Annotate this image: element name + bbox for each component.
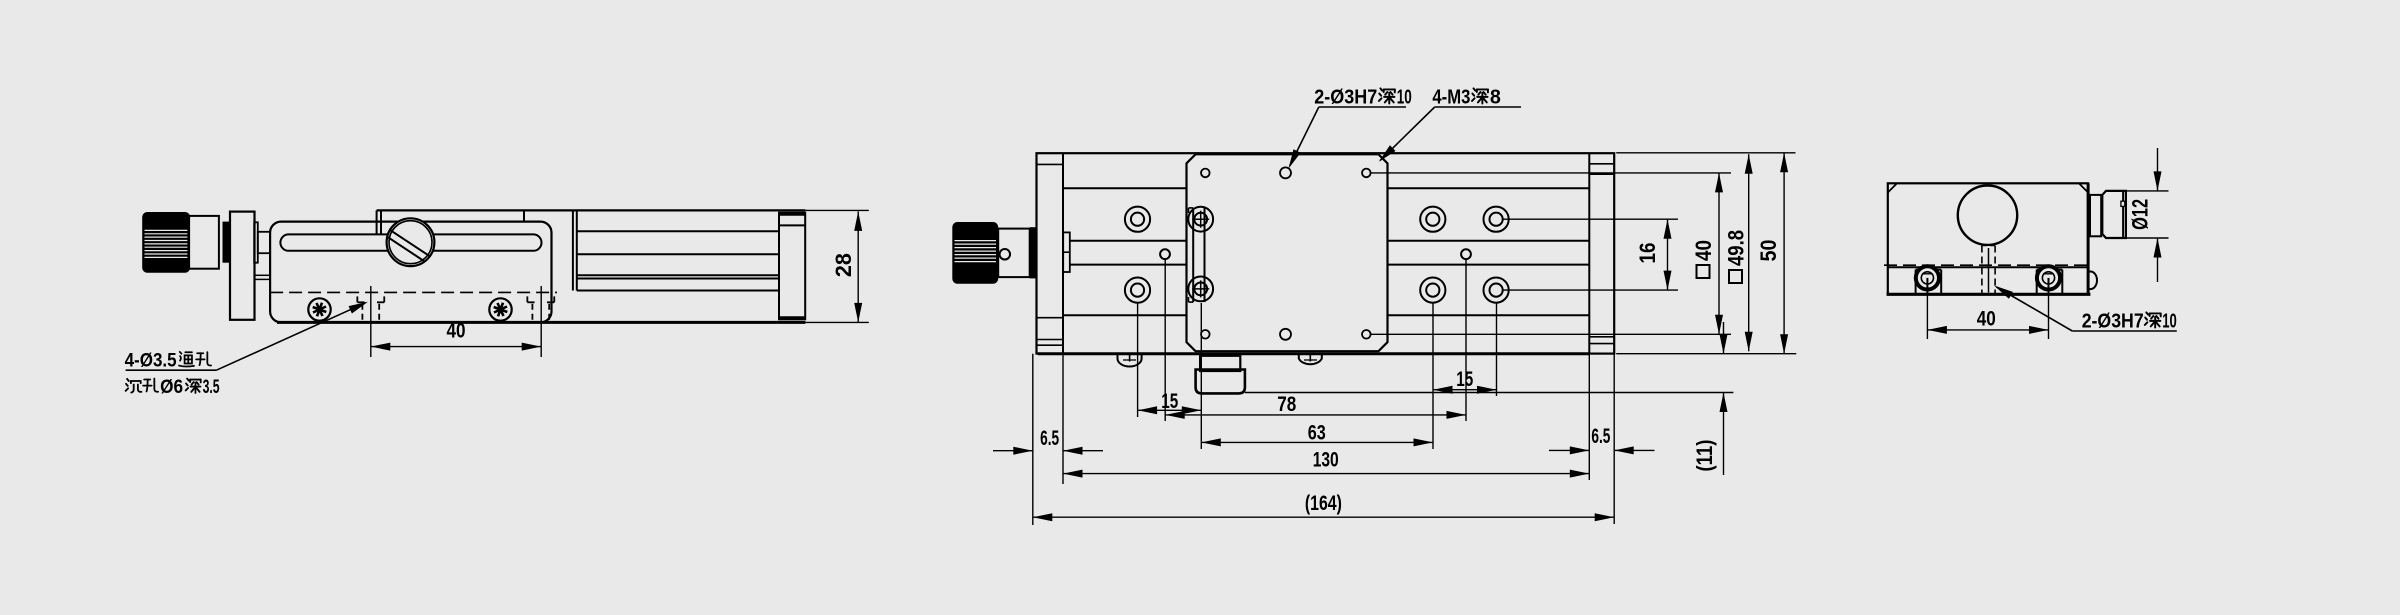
svg-text:16: 16 (1635, 243, 1660, 264)
left dowel hole (1160, 249, 1170, 259)
table cutout edge (523, 210, 525, 221)
lead screw channel (1070, 240, 1187, 242)
dim 6.5 right (1549, 449, 1589, 451)
dim sq40 (1718, 173, 1720, 334)
hidden counterbore hole left (356, 296, 358, 302)
dimension 40 (hole spacing, left view) (370, 286, 372, 357)
note text line2 (126, 379, 142, 393)
shaft bushing (top view) (1030, 227, 1037, 278)
svg-text:10: 10 (2162, 311, 2177, 333)
dim 6.5 left (993, 450, 1033, 452)
svg-text:50: 50 (1756, 240, 1781, 262)
dim 50 extension lines (1616, 152, 1795, 154)
svg-text:(164): (164) (1305, 492, 1342, 515)
dim 15 right (1433, 389, 1497, 391)
hidden counterbore hole right (526, 296, 528, 302)
lead screw bore circle (1958, 186, 2017, 245)
svg-text:Ø6: Ø6 (160, 377, 183, 398)
base joint line (1888, 266, 2088, 268)
svg-text:8: 8 (1490, 87, 1501, 109)
slide body (270, 222, 551, 323)
svg-text:6.5: 6.5 (1591, 425, 1610, 448)
corner chamfer TR (2079, 183, 2088, 192)
step block (254, 222, 258, 262)
extension lines downward (1137, 303, 1139, 417)
svg-text:4-Ø3.5: 4-Ø3.5 (125, 351, 177, 372)
knob collar (top view) (998, 229, 1029, 278)
plate M3 corner holes (1201, 169, 1210, 178)
dim (11) (1245, 392, 1734, 394)
plate dowel holes 3H7 (1280, 167, 1291, 178)
dashed joint line (270, 291, 557, 293)
svg-text:2-Ø3H7: 2-Ø3H7 (2082, 311, 2144, 333)
dim 50 (1783, 153, 1785, 354)
dim (164) (1033, 516, 1614, 518)
bottom bold edge (1887, 293, 2091, 296)
dim 63 (1201, 441, 1433, 443)
shaft nub (258, 232, 270, 253)
leader 2-Ø3H7 deep10 (end view) (2072, 330, 2177, 332)
svg-text:2-Ø3H7: 2-Ø3H7 (1314, 87, 1377, 109)
right dowel hole (1461, 249, 1471, 259)
dashed center line (1884, 264, 2092, 266)
dim phi12 ext lines (2126, 190, 2169, 192)
svg-text:15: 15 (1456, 368, 1473, 391)
knob collar (188, 216, 219, 269)
plate clamp slot (1192, 208, 1194, 302)
end block (779, 213, 805, 320)
clamp screw left (end view) (1915, 270, 1917, 294)
screw head in slot (387, 218, 435, 266)
end view body (1888, 183, 2088, 294)
dim 40 (end view) (1926, 288, 1928, 339)
phillips screw right (489, 298, 511, 320)
leader 2-Ø3H7 deep10 (1319, 106, 1406, 108)
knurled knob (side view) (142, 212, 190, 273)
knob (end view) body (2102, 191, 2126, 238)
shaft coupler tab (1063, 232, 1070, 272)
svg-text:40: 40 (1977, 308, 1996, 331)
rail extrusion lines (577, 230, 779, 232)
svg-text:28: 28 (831, 253, 856, 277)
right counterbored holes (1420, 207, 1445, 232)
rail / base bottom line (277, 321, 805, 324)
bottom mounting screw tabs (1118, 354, 1142, 367)
dim 78 (1165, 414, 1466, 416)
hidden dowel slot (1981, 246, 1983, 294)
svg-text:40: 40 (1691, 240, 1716, 261)
svg-text:3.5: 3.5 (203, 377, 220, 398)
leader 4-M3 deep8 (1435, 106, 1521, 108)
svg-text:(11): (11) (1692, 440, 1717, 472)
clamp screw right (end view) (2036, 270, 2038, 294)
moving table plate (49.8 sq) (1187, 154, 1388, 351)
svg-text:10: 10 (1397, 87, 1412, 109)
lower bar (255, 275, 271, 279)
leader 4-Ø3.5 through-hole note (126, 369, 217, 371)
svg-text:78: 78 (1277, 393, 1296, 416)
dimension 28 (height) (857, 211, 859, 322)
set-screw hole on collar (1000, 249, 1011, 259)
left end cap (1062, 153, 1064, 353)
svg-text:15: 15 (1161, 390, 1178, 413)
svg-text:49.8: 49.8 (1724, 230, 1749, 266)
phillips screw left (308, 298, 330, 320)
dim 15 left (1138, 409, 1202, 411)
slot in slide (280, 234, 541, 250)
right end cap (1588, 153, 1590, 353)
bracket plate (230, 212, 255, 320)
side tab on right edge (2088, 272, 2097, 290)
dim 130 (1063, 473, 1589, 475)
svg-text:6.5: 6.5 (1040, 427, 1059, 450)
16-dim extension lines from right holes (1503, 218, 1678, 220)
plate clamp screws (counterbored, cross slot) (1188, 207, 1213, 232)
corner chamfer TL (1888, 183, 1897, 192)
svg-text:Ø12: Ø12 (2128, 199, 2153, 230)
shaft bushing ring (223, 222, 230, 263)
top table plate (377, 209, 806, 211)
dim sq40 extension lines (1371, 172, 1731, 174)
dim 16 (1667, 219, 1669, 290)
svg-text:130: 130 (1313, 449, 1339, 472)
left counterbored holes (1125, 207, 1150, 232)
main body outline (1037, 153, 1615, 353)
svg-text:63: 63 (1308, 422, 1326, 445)
motor / nut block below plate (1200, 356, 1240, 371)
body inner rail lines (1063, 187, 1187, 189)
bottom edge emphasize (1038, 352, 1589, 355)
dim sq49.8 (1748, 154, 1750, 351)
knob (end view) flange (2090, 195, 2101, 236)
svg-text:4-M3: 4-M3 (1432, 87, 1470, 109)
dim phi12 (2157, 148, 2159, 191)
svg-text:40: 40 (447, 320, 466, 343)
knurled knob (top view) (952, 222, 998, 284)
